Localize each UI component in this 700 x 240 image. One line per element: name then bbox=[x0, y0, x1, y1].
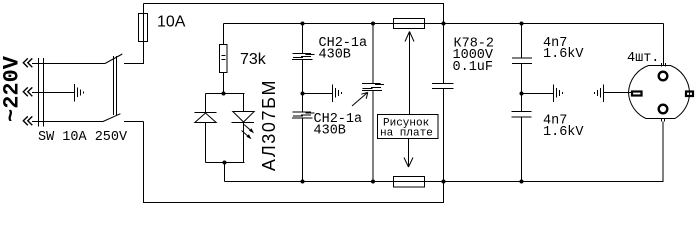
capacitor C1 CH2-1a (top) bbox=[292, 24, 315, 94]
svg-text:АЛ307БМ: АЛ307БМ bbox=[259, 79, 279, 171]
capacitor C6 4n7 (bottom) bbox=[512, 94, 532, 182]
svg-text:~220V: ~220V bbox=[0, 55, 25, 122]
capacitor C3 CH2-1a (middle column) bbox=[362, 24, 384, 182]
svg-text:SW 10A 250V: SW 10A 250V bbox=[38, 130, 128, 145]
wire connector right stub top bbox=[124, 63, 144, 65]
node rail1 top bus bbox=[224, 23, 664, 25]
socket key notch top bbox=[662, 63, 666, 67]
capacitor C4 K78-2 bbox=[432, 24, 454, 182]
socket pin 2 (bottom round) bbox=[659, 105, 668, 114]
wire outer left-bottom return bbox=[144, 122, 444, 203]
diode VD1 bbox=[195, 113, 217, 123]
svg-text:4шт.: 4шт. bbox=[627, 51, 659, 66]
ground (inside connector) bbox=[75, 84, 84, 102]
capacitor C2 CH2-1a (bottom) bbox=[292, 94, 315, 182]
wire fuse bottom lead to connector bbox=[124, 42, 144, 64]
resistor R1 73k bbox=[220, 24, 228, 94]
capacitor C5 4n7 (top) bbox=[512, 24, 532, 94]
ground (between C1/C2) bbox=[333, 85, 342, 103]
wire socket bottom to rail2 bbox=[662, 122, 664, 182]
connector X1 (plug+socket) bbox=[32, 56, 117, 127]
wire top feed to socket bbox=[663, 24, 665, 67]
wire outer top loop bbox=[144, 4, 444, 24]
svg-text:на плате: на плате bbox=[380, 127, 433, 139]
socket pin 4 (right flat) bbox=[686, 92, 693, 97]
socket XS1 (4-pin outlet face) bbox=[629, 66, 690, 119]
socket pin 1 (top round) bbox=[659, 72, 668, 81]
ground (socket shell, mirrored) bbox=[595, 85, 604, 103]
wire connector bottom stub bbox=[124, 121, 144, 123]
wire fuse top lead bbox=[143, 4, 145, 14]
node rail2 bottom bus bbox=[225, 181, 664, 183]
annotation box: Рисунок на плате bbox=[378, 115, 439, 139]
LED VD2 АЛ307БМ bbox=[232, 112, 255, 140]
callout arrow down to E2 bbox=[404, 139, 413, 168]
socket key notch bottom bbox=[662, 119, 665, 122]
connector X1 diagonals bbox=[103, 54, 122, 122]
ground (filter midpoint) bbox=[554, 85, 563, 103]
svg-text:10A: 10A bbox=[157, 14, 186, 31]
wire ground to socket pin bbox=[604, 92, 632, 94]
svg-text:73k: 73k bbox=[240, 51, 267, 68]
svg-text:1.6kV: 1.6kV bbox=[543, 125, 584, 140]
wire mid to ground bbox=[303, 93, 333, 95]
callout arrow up to E1 bbox=[405, 32, 414, 115]
callout arrow to C3 bbox=[352, 92, 368, 106]
wire to ground (right filter) bbox=[522, 93, 554, 95]
pin arrows (guillemets) bbox=[23, 58, 32, 125]
socket pin 3 (left flat) bbox=[632, 92, 642, 96]
svg-text:1.6kV: 1.6kV bbox=[543, 47, 584, 62]
svg-text:0.1uF: 0.1uF bbox=[453, 60, 494, 75]
fuse FU1 10A bbox=[139, 14, 148, 42]
svg-text:430В: 430В bbox=[314, 124, 346, 139]
spark gap E1 (PCB pattern, top) bbox=[394, 19, 425, 29]
spark gap E2 (PCB pattern, bottom) bbox=[394, 177, 425, 188]
svg-text:430В: 430В bbox=[319, 48, 351, 63]
diode pair branch bbox=[206, 94, 245, 182]
